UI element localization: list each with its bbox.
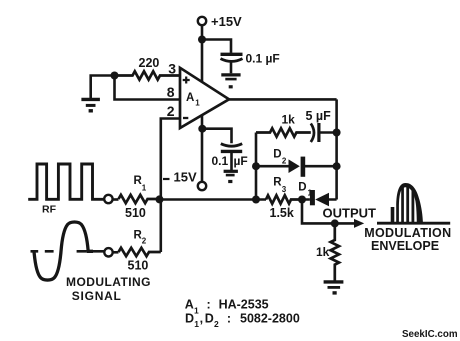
wire op-amp output [229,98,337,101]
svg-text:D: D [185,311,194,325]
wire C1 to ground [230,63,233,74]
svg-text:2: 2 [142,237,147,246]
node rail/R3 left [252,196,260,204]
node rail/D2 left [252,162,260,170]
wire output tap [302,200,354,224]
modulation envelope symbol [391,183,423,225]
capacitor C2 0.1uF [221,144,242,147]
svg-text:HA-2535: HA-2535 [219,298,269,312]
svg-text:8: 8 [167,84,175,100]
node rail/5uF [333,129,341,137]
op-amp A1 [180,68,229,128]
svg-text:2: 2 [214,319,219,329]
svg-text:1k: 1k [316,245,330,259]
minus symbol [183,117,188,119]
svg-text:D: D [273,149,281,161]
node R3/D1 output junction [298,196,306,204]
terminal modulating input [104,248,112,256]
wire summing junction to R3 [113,198,119,201]
node output/1k [331,219,339,227]
svg-text:0.1 µF: 0.1 µF [246,52,280,66]
svg-text:3: 3 [282,185,287,194]
svg-text:2: 2 [167,103,175,119]
svg-text:1k: 1k [282,113,296,127]
resistor R1 510 [119,195,162,203]
plus symbol [183,77,190,84]
terminal RF input [104,195,112,203]
svg-text:µF: µF [234,154,248,168]
node rail/D2 [333,162,341,170]
node summing junction [156,195,164,203]
node 220/ground junction [111,72,119,80]
svg-text:1.5k: 1.5k [270,206,294,220]
ground (C2) [224,170,238,173]
wire +15V down to node [201,26,204,40]
svg-text:3: 3 [168,60,176,76]
ground (C1) [221,73,240,76]
wire V- supply [201,115,204,182]
svg-text:RF: RF [42,203,57,215]
svg-text:1: 1 [194,305,199,315]
svg-text:D: D [298,181,306,193]
diode D1 [310,190,315,205]
svg-text::: : [207,298,211,312]
capacitor C1 0.1uF [221,53,243,56]
ground (left) [81,98,100,101]
svg-text:A: A [186,92,194,104]
wire V+ supply into op-amp [201,40,204,85]
wire junction to R3 branch [161,198,266,201]
svg-text:D: D [205,311,214,325]
resistor 1k feedback [256,128,311,136]
wire 5uF to rail [319,131,337,134]
wire C2 to ground [230,153,233,170]
svg-text:+15V: +15V [211,14,242,29]
svg-text:SIGNAL: SIGNAL [72,289,122,303]
ground (output) [324,280,344,283]
wire D2 branch [256,165,337,168]
wire pin 8 [115,76,181,100]
label -15V [163,178,170,180]
node supply branch [198,36,206,44]
diode D2 [289,159,300,173]
arrow output [354,219,364,228]
wire node to C2 [202,129,231,144]
svg-text:2: 2 [282,156,287,165]
svg-text:OUTPUT: OUTPUT [323,206,377,221]
svg-text:15V: 15V [174,170,197,185]
RF square wave symbol [28,164,103,199]
svg-text:A: A [185,298,194,312]
terminal -15V [198,182,206,190]
resistor 1k output [331,223,339,281]
terminal +15V [198,17,206,25]
modulating sine wave symbol [34,222,93,280]
wire pin 2 to summing rail [161,119,180,253]
resistor 220 [115,71,181,79]
svg-text:ENVELOPE: ENVELOPE [371,239,439,253]
axis dashes [31,250,104,253]
right feedback rail [335,99,338,199]
svg-text:5082-2800: 5082-2800 [240,311,300,325]
svg-text:,: , [200,311,203,325]
svg-text:1: 1 [194,319,199,329]
svg-text:510: 510 [128,259,149,273]
svg-text:MODULATING: MODULATING [66,275,151,289]
svg-text:1: 1 [308,188,313,197]
svg-text:0.1: 0.1 [212,154,229,168]
svg-text:SeekIC.com: SeekIC.com [402,329,458,340]
node V- branch [198,125,206,133]
resistor R2 510 [119,248,161,256]
svg-text:1: 1 [195,99,200,108]
svg-text:510: 510 [125,206,146,220]
svg-text::: : [227,311,231,325]
capacitor 5uF [311,124,314,143]
left feedback rail [255,133,258,200]
svg-text:1: 1 [142,183,147,192]
resistor R3 1.5k [266,195,302,203]
wire node left to ground [91,76,115,99]
svg-text:220: 220 [139,56,160,70]
svg-text:5 µF: 5 µF [306,109,332,123]
wire node to C1 [202,40,231,53]
